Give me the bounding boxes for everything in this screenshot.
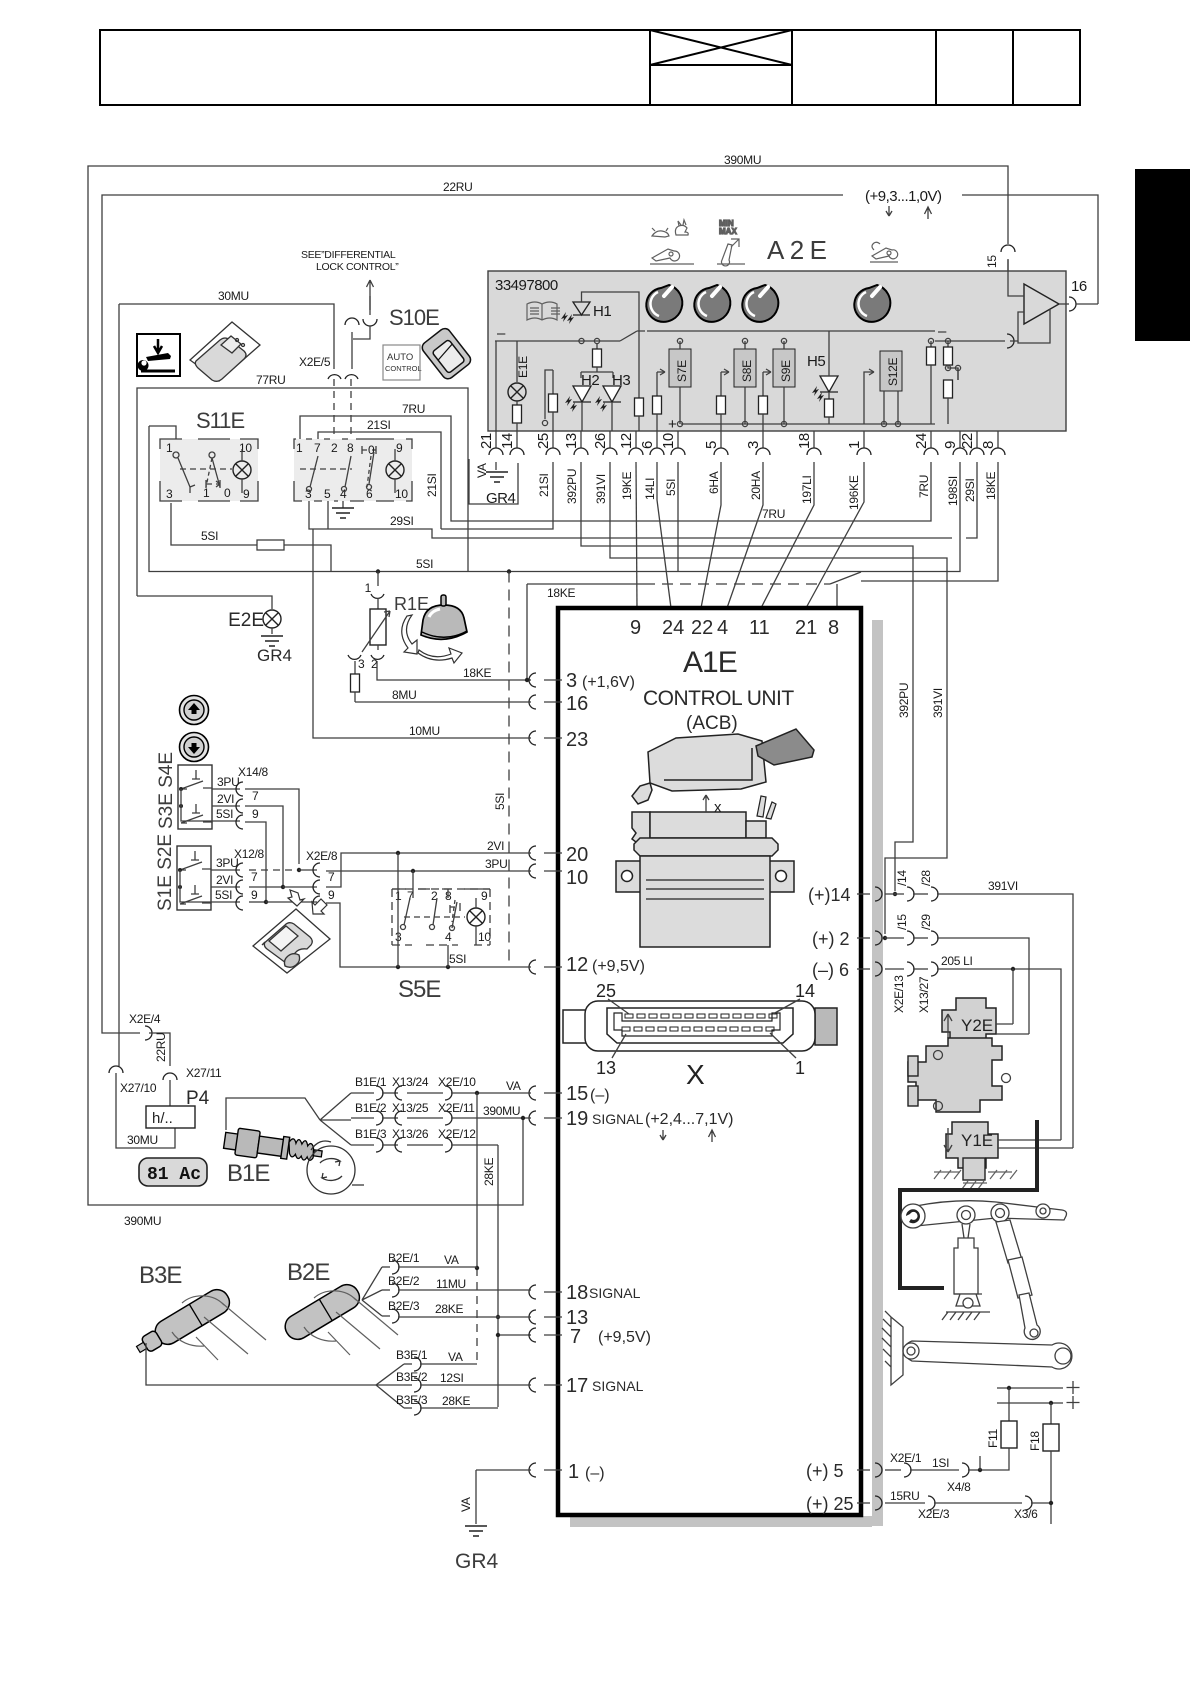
dsub pin 13 leader <box>596 1034 626 1078</box>
svg-text:25: 25 <box>596 981 616 1001</box>
arrow down <box>886 206 892 216</box>
svg-text:X2E/10: X2E/10 <box>438 1075 476 1089</box>
svg-text:5SI: 5SI <box>216 807 233 821</box>
valve Y2E coil <box>942 998 1029 1046</box>
svg-text:18KE: 18KE <box>547 586 575 600</box>
svg-text:CONTROL: CONTROL <box>385 364 422 373</box>
svg-text:(+9,5V): (+9,5V) <box>592 958 645 975</box>
svg-text:R1E: R1E <box>394 594 429 614</box>
svg-text:X12/8: X12/8 <box>234 847 264 861</box>
svg-text:9: 9 <box>252 807 259 821</box>
pin 19 row 390MU <box>529 1108 734 1142</box>
icon turtle-rabbit implement <box>650 220 694 264</box>
svg-text:1: 1 <box>365 581 372 595</box>
svg-text:B2E/2: B2E/2 <box>388 1274 420 1288</box>
svg-text:5SI: 5SI <box>416 557 433 571</box>
svg-text:21SI: 21SI <box>537 474 551 498</box>
valve body <box>908 1038 1011 1112</box>
pin 5 <box>806 1461 882 1481</box>
svg-text:S7E: S7E <box>675 360 689 382</box>
svg-text:24: 24 <box>662 617 684 639</box>
svg-text:/14: /14 <box>895 870 909 886</box>
svg-text:h/..: h/.. <box>152 1110 173 1127</box>
svg-text:B3E/2: B3E/2 <box>396 1370 428 1384</box>
ground hatch under valve <box>934 1170 1017 1189</box>
svg-text:390MU: 390MU <box>124 1214 161 1228</box>
junction 5SI-R1E <box>376 569 380 573</box>
svg-text:6: 6 <box>639 441 656 449</box>
svg-text:21SI: 21SI <box>425 474 439 498</box>
svg-text:(–): (–) <box>590 1087 610 1104</box>
bottom plus bus A2E <box>681 423 935 425</box>
svg-text:S9E: S9E <box>779 360 793 382</box>
svg-text:391VI: 391VI <box>594 474 608 504</box>
fuse F18 <box>1028 1403 1059 1524</box>
svg-text:X4/8: X4/8 <box>947 1480 971 1494</box>
dsub pin 25 leader <box>596 981 629 1014</box>
pin 13 row 28KE <box>529 1307 588 1329</box>
svg-text:4: 4 <box>445 930 452 944</box>
svg-text:390MU: 390MU <box>724 153 761 167</box>
switch S5E dashed box <box>392 853 491 967</box>
ECU connector pictorial <box>632 729 814 804</box>
wire 5SI pin10 drop <box>677 462 679 572</box>
svg-text:Y2E: Y2E <box>961 1016 993 1035</box>
svg-text:196KE: 196KE <box>847 475 861 510</box>
svg-text:B1E: B1E <box>227 1160 269 1187</box>
row B3E/2 <box>396 1370 531 1392</box>
lightning marks H1 <box>561 312 574 324</box>
svg-text:B2E/3: B2E/3 <box>388 1299 420 1313</box>
connector X2E/4 <box>102 1012 170 1066</box>
wire 2VI to A1E <box>326 853 531 887</box>
svg-text:SIGNAL: SIGNAL <box>592 1111 644 1127</box>
button down <box>180 733 209 762</box>
row B1E/1 <box>351 1075 531 1100</box>
diode H1 <box>573 302 611 320</box>
row B3E/3 <box>396 1393 498 1415</box>
potentiometer R1E <box>348 572 429 703</box>
svg-text:1: 1 <box>846 441 863 449</box>
wire op-amp minus input <box>935 340 1005 342</box>
row pin6 205LI <box>885 954 1061 1140</box>
svg-text:26: 26 <box>592 433 609 449</box>
svg-text:B3E/3: B3E/3 <box>396 1393 428 1407</box>
svg-text:28KE: 28KE <box>435 1302 463 1316</box>
svg-text:19KE: 19KE <box>620 472 634 500</box>
pin 7 row <box>498 1326 651 1348</box>
pin 25 <box>806 1494 882 1514</box>
wire 5SI to S5E row <box>326 903 531 967</box>
wire VA vertical <box>476 1093 478 1364</box>
pin 14 <box>808 885 882 905</box>
svg-text:20HA: 20HA <box>749 471 763 500</box>
svg-text:14: 14 <box>499 433 516 449</box>
svg-text:H1: H1 <box>593 303 611 320</box>
icon rotation B1E <box>307 1141 364 1194</box>
ground GR4 under pin 21 <box>469 459 518 507</box>
junction circles under H1 <box>579 338 584 343</box>
wire 197LI diagonal <box>761 462 814 608</box>
svg-text:S10E: S10E <box>389 305 439 330</box>
pin 3 row 18KE <box>527 670 635 692</box>
switch contact inside A2E <box>620 331 645 341</box>
svg-text:392PU: 392PU <box>897 683 911 718</box>
svg-text:3: 3 <box>745 441 762 449</box>
knob 2 <box>694 285 730 322</box>
wire loop pin25 <box>552 370 554 394</box>
svg-text:(+2,4...7,1V): (+2,4...7,1V) <box>645 1111 734 1128</box>
svg-text:24: 24 <box>913 433 930 449</box>
svg-text:7: 7 <box>251 870 258 884</box>
svg-text:0: 0 <box>224 486 231 500</box>
svg-text:B1E/1: B1E/1 <box>355 1075 387 1089</box>
svg-text:S3E S4E: S3E S4E <box>156 752 177 829</box>
arrow up <box>925 207 932 219</box>
svg-text:9: 9 <box>630 617 641 639</box>
wire 3PU to A1E <box>326 870 531 872</box>
svg-text:SIGNAL: SIGNAL <box>589 1285 641 1301</box>
wire 5SI long bus <box>149 426 960 572</box>
lever bottom arm <box>882 1311 1072 1385</box>
title block <box>100 30 1080 105</box>
svg-text:18KE: 18KE <box>984 472 998 500</box>
dsub pins row2 <box>622 1027 774 1031</box>
row B2E/3 <box>382 1299 531 1323</box>
sensor B3E <box>132 1285 376 1385</box>
svg-text:10MU: 10MU <box>409 724 440 738</box>
svg-text:7RU: 7RU <box>917 475 931 498</box>
pin 20 row 2VI <box>529 844 588 866</box>
switchbox S7E <box>653 338 692 431</box>
svg-text:21SI: 21SI <box>367 418 391 432</box>
switch S10E rocker <box>420 326 473 381</box>
wire 390MU outer loop <box>88 166 1008 1205</box>
svg-text:X2E/3: X2E/3 <box>918 1507 950 1521</box>
icon MIN MAX implement <box>717 219 745 266</box>
svg-text:(+1,6V): (+1,6V) <box>582 674 635 691</box>
svg-text:S8E: S8E <box>740 360 754 382</box>
svg-text:15RU: 15RU <box>890 1489 919 1503</box>
svg-text:AUTO: AUTO <box>387 352 413 363</box>
wire 29SI net <box>309 462 977 538</box>
fanout B1E apex <box>226 1093 351 1145</box>
svg-text:77RU: 77RU <box>256 373 285 387</box>
svg-text:X2E/11: X2E/11 <box>438 1101 475 1115</box>
svg-text:22: 22 <box>691 617 713 639</box>
wire 392PU net <box>581 462 913 891</box>
svg-text:16: 16 <box>1071 278 1087 295</box>
svg-text:SEE”DIFFERENTIAL: SEE”DIFFERENTIAL <box>301 249 396 261</box>
svg-text:5SI: 5SI <box>201 529 218 543</box>
box AUTO CONTROL <box>383 345 422 380</box>
resistor on E1E line <box>516 401 518 405</box>
lamp E2E <box>137 596 292 665</box>
connector X2E/5 <box>299 355 358 439</box>
wire 14LI diagonal <box>657 462 671 608</box>
svg-text:SIGNAL: SIGNAL <box>592 1378 644 1394</box>
svg-text:8MU: 8MU <box>392 688 416 702</box>
svg-text:14LI: 14LI <box>643 478 657 500</box>
connector X27/11 <box>163 1066 222 1106</box>
svg-text:205 LI: 205 LI <box>941 954 973 968</box>
svg-text:A1E: A1E <box>683 646 737 679</box>
svg-text:VA: VA <box>475 463 489 478</box>
wire 391VI net <box>610 462 947 934</box>
svg-text:3PU: 3PU <box>216 856 238 870</box>
svg-text:81 Ac: 81 Ac <box>147 1165 201 1185</box>
svg-text:12: 12 <box>566 954 588 976</box>
svg-text:22RU: 22RU <box>154 1033 168 1062</box>
svg-text:(+) 5: (+) 5 <box>806 1461 844 1481</box>
svg-text:14: 14 <box>795 981 815 1001</box>
svg-text:23: 23 <box>566 729 588 751</box>
pin 17 row 12SI <box>529 1375 644 1397</box>
wire pin21 inside <box>495 341 497 431</box>
pin 2 <box>812 929 882 949</box>
svg-text:S1E S2E: S1E S2E <box>155 834 176 911</box>
A2E wire labels rotated <box>475 463 998 510</box>
page tab black mark <box>1135 169 1190 341</box>
wire H1 to pin12 top <box>582 292 640 400</box>
connector X27/10 <box>109 304 175 1148</box>
svg-text:12SI: 12SI <box>440 1371 464 1385</box>
row X2E/1 1SI X4/8 <box>885 1451 982 1494</box>
svg-text:5SI: 5SI <box>215 888 232 902</box>
svg-text:392PU: 392PU <box>565 469 579 504</box>
svg-text:8: 8 <box>347 441 354 455</box>
svg-text:11MU: 11MU <box>436 1277 466 1291</box>
pin 23 row 10MU <box>529 729 588 751</box>
svg-text:/15: /15 <box>895 914 909 930</box>
row pin2 with connectors /15 /29 <box>883 914 1029 1034</box>
fuse F11 <box>980 1381 1080 1470</box>
panel A2E <box>488 271 1066 431</box>
fanout B3E <box>376 1364 404 1408</box>
row B1E/2 <box>351 1101 531 1125</box>
fanout B2E <box>362 1267 382 1316</box>
lever link rod <box>996 1220 1040 1339</box>
svg-text:X14/8: X14/8 <box>238 765 268 779</box>
svg-text:X2E/5: X2E/5 <box>299 355 331 369</box>
svg-text:6HA: 6HA <box>707 471 721 494</box>
wire 22RU inner loop <box>102 195 1098 1028</box>
svg-text:29SI: 29SI <box>963 479 977 503</box>
lever top arm <box>901 1201 1067 1228</box>
svg-text:15: 15 <box>566 1083 588 1105</box>
svg-text:–: – <box>497 325 506 342</box>
lever cylinder <box>942 1224 990 1320</box>
svg-text:3PU: 3PU <box>485 857 507 871</box>
icon hand throttle box <box>137 334 180 376</box>
svg-text:22RU: 22RU <box>443 180 472 194</box>
svg-text:–: – <box>938 323 947 340</box>
svg-text:B1E/3: B1E/3 <box>355 1127 387 1141</box>
wire 196KE diagonal <box>806 462 864 608</box>
svg-text:(–): (–) <box>585 1465 605 1482</box>
svg-text:X2E/4: X2E/4 <box>129 1012 161 1026</box>
ECU body pictorial <box>616 796 794 947</box>
svg-text:28KE: 28KE <box>482 1158 496 1186</box>
dsub pin 14 leader <box>773 981 815 1014</box>
svg-text:X2E/8: X2E/8 <box>306 849 338 863</box>
wire 20HA diagonal <box>727 462 763 608</box>
connector X14/8 <box>212 765 299 902</box>
svg-text:1SI: 1SI <box>932 1456 949 1470</box>
wire E1E branch <box>516 341 518 382</box>
svg-text:VA: VA <box>448 1350 463 1364</box>
svg-text:S5E: S5E <box>398 976 440 1003</box>
pin 12 row 5SI <box>529 954 645 976</box>
svg-text:391VI: 391VI <box>931 688 945 718</box>
connector X12/8 <box>211 847 264 910</box>
switchbox S12E <box>864 351 902 427</box>
svg-text:(–) 6: (–) 6 <box>812 960 849 980</box>
switch S1E S2E <box>155 834 211 911</box>
svg-text:Y1E: Y1E <box>961 1131 993 1150</box>
svg-text:B2E: B2E <box>287 1259 329 1286</box>
dsub pin 1 leader <box>770 1033 805 1078</box>
svg-text:X2E/13: X2E/13 <box>892 975 906 1013</box>
wire 28KE vertical <box>497 1145 499 1407</box>
wire 77RU <box>137 388 468 596</box>
svg-text:S12E: S12E <box>886 358 900 386</box>
svg-text:18: 18 <box>566 1282 588 1304</box>
svg-text:E1E: E1E <box>516 356 530 378</box>
svg-text:B3E: B3E <box>139 1262 181 1289</box>
node X arrow <box>703 795 722 816</box>
svg-text:F18: F18 <box>1028 1431 1042 1451</box>
A1E top pin numbers <box>630 617 839 639</box>
icon book <box>527 302 560 320</box>
svg-text:16: 16 <box>566 693 588 715</box>
wire 30MU <box>119 304 334 369</box>
svg-text:(ACB): (ACB) <box>686 713 738 734</box>
pin 6 <box>812 960 882 980</box>
knob 1 <box>646 285 682 322</box>
svg-text:7: 7 <box>252 789 259 803</box>
pin 15 row VA <box>529 1083 610 1105</box>
display 81Ac <box>139 1158 207 1186</box>
svg-text:391VI: 391VI <box>988 879 1018 893</box>
svg-text:10: 10 <box>395 487 408 501</box>
svg-text:28KE: 28KE <box>442 1394 470 1408</box>
right resistor pair <box>930 341 932 347</box>
wire 18KE dashed harness <box>527 462 998 608</box>
svg-text:17: 17 <box>566 1375 588 1397</box>
svg-text:1: 1 <box>795 1058 805 1078</box>
op-amp U1 <box>1007 260 1098 348</box>
svg-text:2VI: 2VI <box>216 873 233 887</box>
icon implement lower <box>870 242 898 262</box>
svg-text:8: 8 <box>980 441 997 449</box>
svg-text:7: 7 <box>570 1326 581 1348</box>
svg-text:29SI: 29SI <box>390 514 414 528</box>
switchbox S9E <box>759 338 796 431</box>
svg-text:9: 9 <box>251 888 258 902</box>
svg-text:197LI: 197LI <box>800 475 814 504</box>
row B3E/1 <box>396 1348 477 1371</box>
svg-text:CONTROL UNIT: CONTROL UNIT <box>643 687 794 710</box>
wire 5SI resistor branch <box>171 503 331 572</box>
svg-text:VA: VA <box>444 1253 459 1267</box>
button up <box>180 696 209 725</box>
svg-text:5SI: 5SI <box>664 479 678 496</box>
wire 10MU <box>313 529 531 738</box>
svg-text:x: x <box>714 799 722 816</box>
row B2E/2 <box>382 1274 531 1297</box>
svg-text:LOCK CONTROL”: LOCK CONTROL” <box>316 261 399 273</box>
svg-text:9: 9 <box>396 441 403 455</box>
switch S11E box2 <box>294 439 412 501</box>
svg-text:5SI: 5SI <box>449 952 466 966</box>
switch S3E S4E <box>156 752 212 829</box>
svg-text:X: X <box>686 1059 705 1090</box>
connector 15 into A2E <box>985 245 1015 268</box>
svg-text:5SI: 5SI <box>493 793 507 810</box>
icon R1E knob <box>402 595 467 663</box>
sensor B2E <box>281 1280 398 1355</box>
svg-text:X27/11: X27/11 <box>186 1066 222 1080</box>
svg-text:X2E/12: X2E/12 <box>438 1127 476 1141</box>
svg-text:B2E/1: B2E/1 <box>388 1251 420 1265</box>
svg-text:9: 9 <box>481 889 488 903</box>
svg-text:19: 19 <box>566 1108 588 1130</box>
svg-text:4: 4 <box>717 617 728 639</box>
row B2E/1 <box>382 1251 477 1274</box>
svg-text:5: 5 <box>324 487 331 501</box>
wire 18KE from R1E <box>377 584 527 680</box>
svg-text:5: 5 <box>703 441 720 449</box>
svg-text:390MU: 390MU <box>483 1104 520 1118</box>
svg-text:1: 1 <box>166 441 173 455</box>
sensor B1E <box>223 1126 324 1166</box>
svg-text:H5: H5 <box>807 353 825 370</box>
svg-text:30MU: 30MU <box>218 289 249 303</box>
svg-text:2VI: 2VI <box>487 839 504 853</box>
wire S10E mechanical link <box>345 296 377 369</box>
bus top right of A2E <box>647 330 935 332</box>
svg-text:7RU: 7RU <box>762 507 785 521</box>
svg-text:9: 9 <box>942 441 959 449</box>
junction 5SI-dashed <box>507 569 511 573</box>
wire 8MU <box>355 701 531 703</box>
wire minus bus <box>495 340 620 342</box>
svg-text:1: 1 <box>568 1461 579 1483</box>
lamp E1E <box>508 383 526 401</box>
svg-text:15: 15 <box>985 255 999 268</box>
svg-text:/29: /29 <box>919 914 933 930</box>
svg-text:30MU: 30MU <box>127 1133 158 1147</box>
svg-text:9: 9 <box>328 888 335 902</box>
svg-text:B3E/1: B3E/1 <box>396 1348 428 1362</box>
pin 1 row VA ground <box>529 1461 605 1483</box>
connector X2E/8 <box>249 849 338 910</box>
svg-text:2: 2 <box>331 441 338 455</box>
svg-text:20: 20 <box>566 844 588 866</box>
svg-text:9: 9 <box>243 487 250 501</box>
icon rocker S5E <box>253 890 330 973</box>
counter P4 h/.. <box>127 1088 210 1147</box>
svg-text:(+) 25: (+) 25 <box>806 1494 854 1514</box>
svg-text:E2E: E2E <box>228 610 264 631</box>
svg-text:3: 3 <box>358 657 365 671</box>
pin 10 row 3PU <box>529 864 588 889</box>
svg-text:7RU: 7RU <box>402 402 425 416</box>
svg-text:S11E: S11E <box>196 408 245 433</box>
svg-text:11: 11 <box>749 617 770 639</box>
svg-text:21: 21 <box>478 433 495 449</box>
